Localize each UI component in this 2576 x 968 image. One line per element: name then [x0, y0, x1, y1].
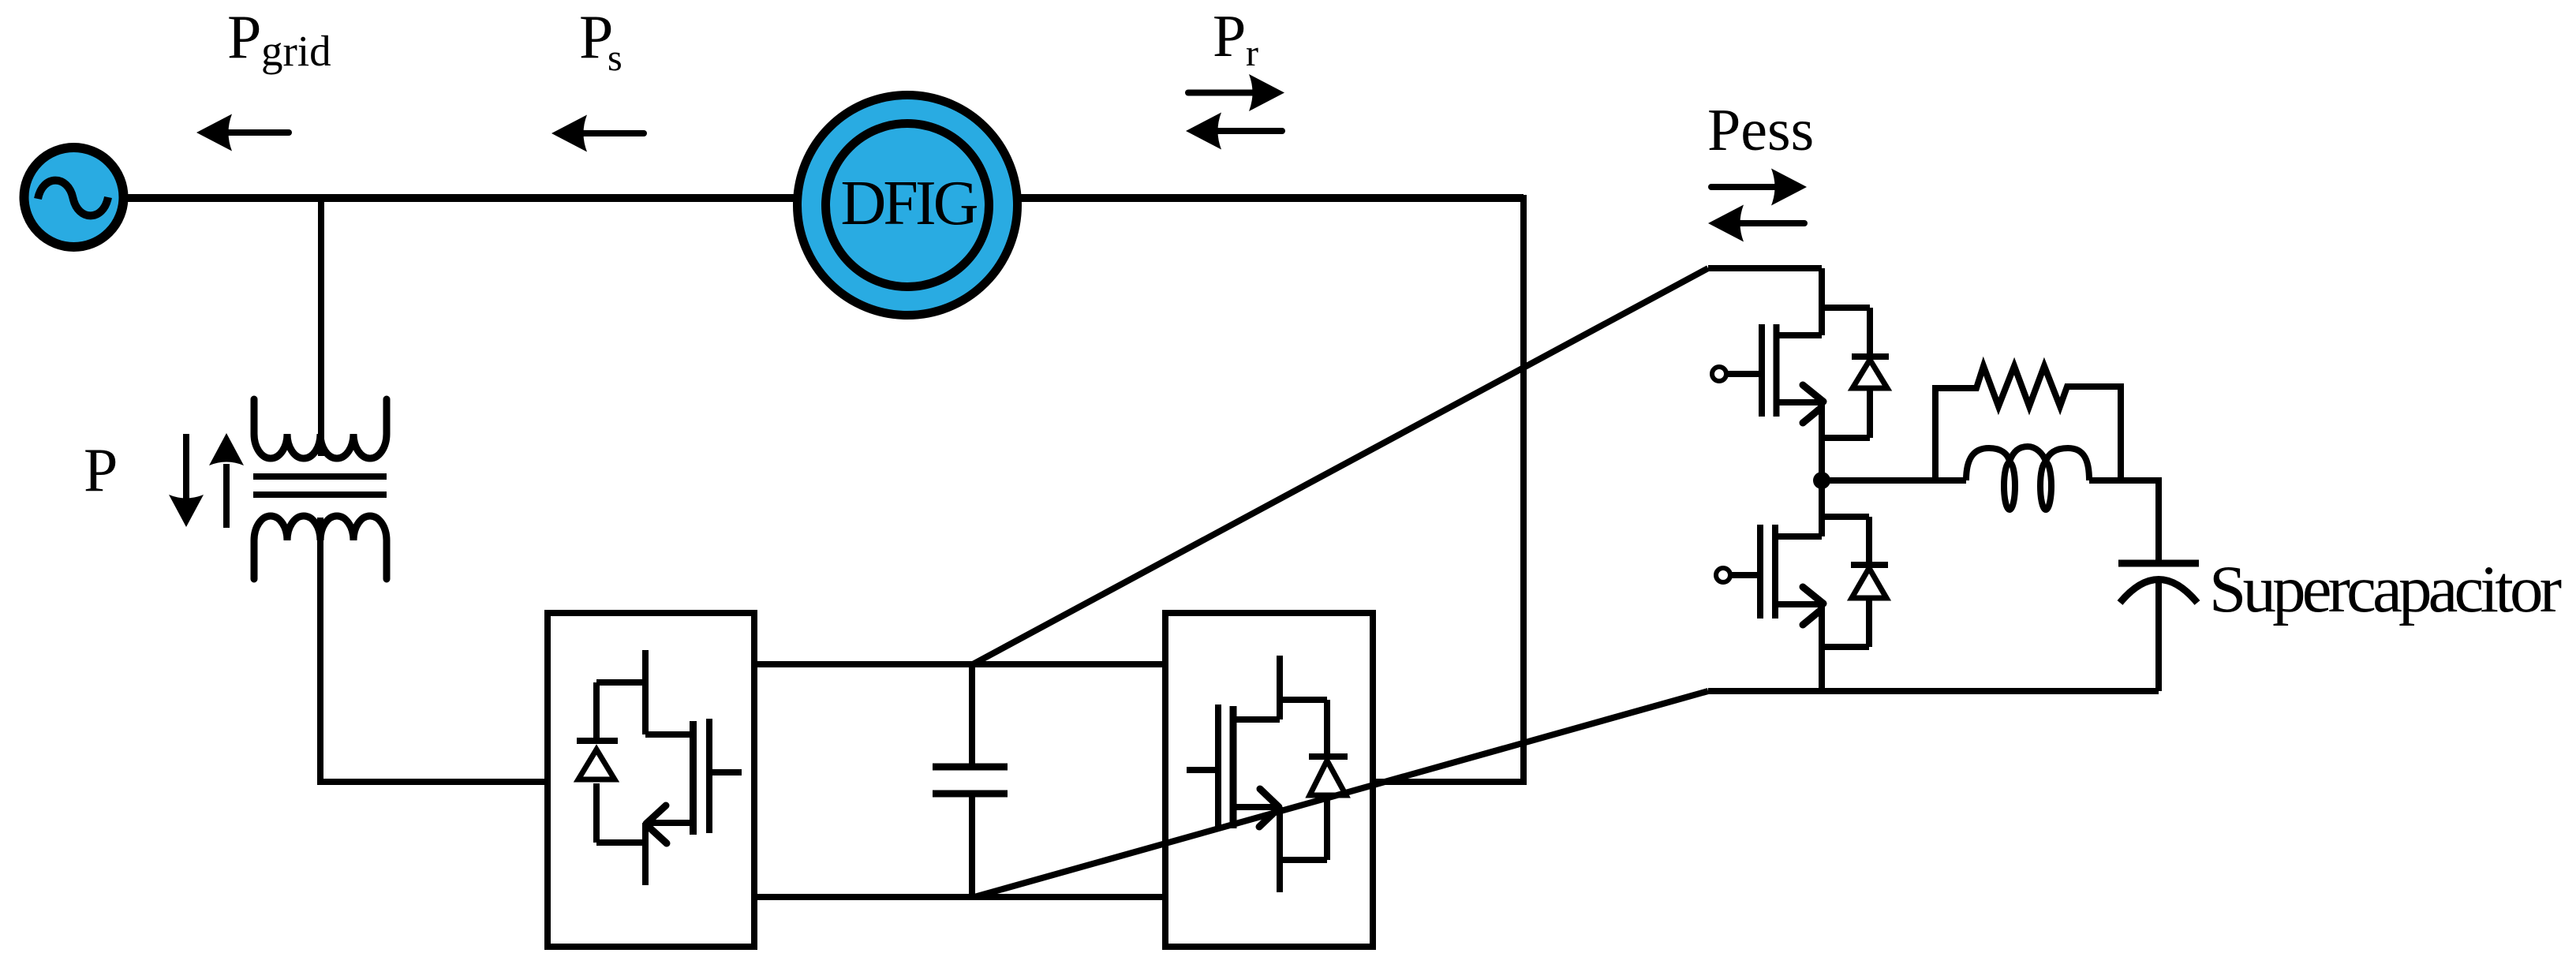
- wire: main AC bus from grid source to DFIG corner: [122, 194, 1524, 202]
- MOSFET Q2 gate terminal circle: [1716, 568, 1730, 582]
- transformer T1 primary winding: [254, 399, 387, 458]
- DFIG machine inner circle: [826, 124, 989, 287]
- ESS bottom rail: [1708, 688, 2159, 694]
- wire: transformer secondary down and right to GSC: [320, 518, 548, 782]
- MOSFET Q1 gate bar: [1759, 324, 1765, 417]
- MOSFET Q2 gate lead: [1730, 572, 1757, 578]
- svg-text:grid: grid: [261, 27, 331, 75]
- MOSFET Q2 source lead with arrow: [1778, 604, 1822, 691]
- DC bus bottom: [754, 894, 1165, 900]
- supercapacitor C2 top plate: [2118, 560, 2199, 567]
- RSC IGBT gate lead: [1187, 767, 1215, 773]
- resistor R1 (parallel with inductor): [1935, 366, 2121, 480]
- arrow: Pess power flow left: [1708, 205, 1744, 242]
- RSC IGBT gate bar: [1215, 705, 1221, 827]
- node: midpoint junction dot: [1813, 472, 1830, 489]
- svg-text:P: P: [227, 2, 261, 71]
- RSC converter box U2: [1165, 613, 1373, 947]
- DC bus top: [754, 661, 1165, 667]
- diode D1 (antiparallel with Q1): [1822, 308, 1889, 438]
- grid source G1 (AC source circle): [24, 148, 124, 247]
- grid source sine symbol: [38, 181, 108, 216]
- arrow: Ps power flow (left): [551, 115, 587, 152]
- MOSFET Q2 channel bar: [1772, 525, 1778, 619]
- svg-text:DFIG: DFIG: [841, 169, 979, 238]
- wire: DFIG rotor connection down to RSC: [1373, 195, 1524, 782]
- arrow: Pgrid power flow (left): [196, 114, 232, 151]
- wire: supercap to bottom rail: [2155, 581, 2162, 691]
- wire: branch from bus to transformer primary: [318, 198, 324, 456]
- arrow: P down: [183, 434, 189, 502]
- svg-text:r: r: [1246, 32, 1258, 74]
- diode D2 (antiparallel with Q2): [1822, 517, 1888, 647]
- arrow: Pess power flow right: [1771, 169, 1807, 206]
- svg-text:P: P: [1213, 3, 1246, 69]
- MOSFET Q1 gate lead: [1726, 371, 1759, 377]
- transformer T1 core: [253, 477, 387, 495]
- wire: midpoint to inductor: [1822, 477, 1966, 484]
- svg-text:P: P: [84, 435, 118, 504]
- arrow: Pr power flow right: [1249, 74, 1284, 111]
- GSC IGBT emitter lead with arrow: [645, 823, 690, 885]
- svg-text:Pess: Pess: [1707, 97, 1814, 163]
- arrow: P up: [223, 464, 230, 528]
- GSC IGBT collector lead: [645, 650, 690, 734]
- MOSFET Q1 channel bar: [1774, 324, 1780, 417]
- GSC antiparallel diode D3: [577, 682, 645, 843]
- MOSFET Q1 gate terminal circle: [1712, 367, 1726, 381]
- DC link capacitor C1: [969, 664, 975, 767]
- RSC IGBT collector lead: [1236, 656, 1280, 719]
- GSC IGBT channel bar: [690, 721, 697, 835]
- transformer T1 secondary winding: [254, 516, 387, 579]
- MOSFET Q1 source lead with arrow: [1779, 402, 1822, 480]
- supercapacitor C2 curved plate: [2120, 580, 2197, 604]
- inductor L1: [1966, 447, 2089, 480]
- zoom line top (DC link to ESS detail): [973, 268, 1708, 664]
- svg-text:Supercapacitor: Supercapacitor: [2209, 552, 2562, 626]
- DFIG machine outer circle: [798, 95, 1018, 316]
- GSC IGBT gate bar: [706, 719, 712, 833]
- MOSFET Q1 drain connection: [1779, 268, 1870, 335]
- GSC IGBT gate lead: [712, 769, 742, 776]
- GSC converter box U1: [548, 613, 754, 947]
- MOSFET Q2 gate bar: [1757, 525, 1763, 619]
- zoom line bottom (DC link to ESS detail): [974, 691, 1708, 897]
- arrow: Pr power flow left: [1186, 113, 1221, 150]
- ESS top rail: [1708, 265, 1822, 271]
- MOSFET Q2 drain connection: [1778, 480, 1869, 536]
- RSC antiparallel diode D4: [1280, 700, 1348, 860]
- wire: inductor to supercap corner: [2089, 480, 2159, 560]
- svg-text:s: s: [608, 37, 623, 79]
- RSC IGBT emitter lead with arrow: [1236, 807, 1280, 892]
- RSC IGBT channel bar: [1230, 706, 1237, 828]
